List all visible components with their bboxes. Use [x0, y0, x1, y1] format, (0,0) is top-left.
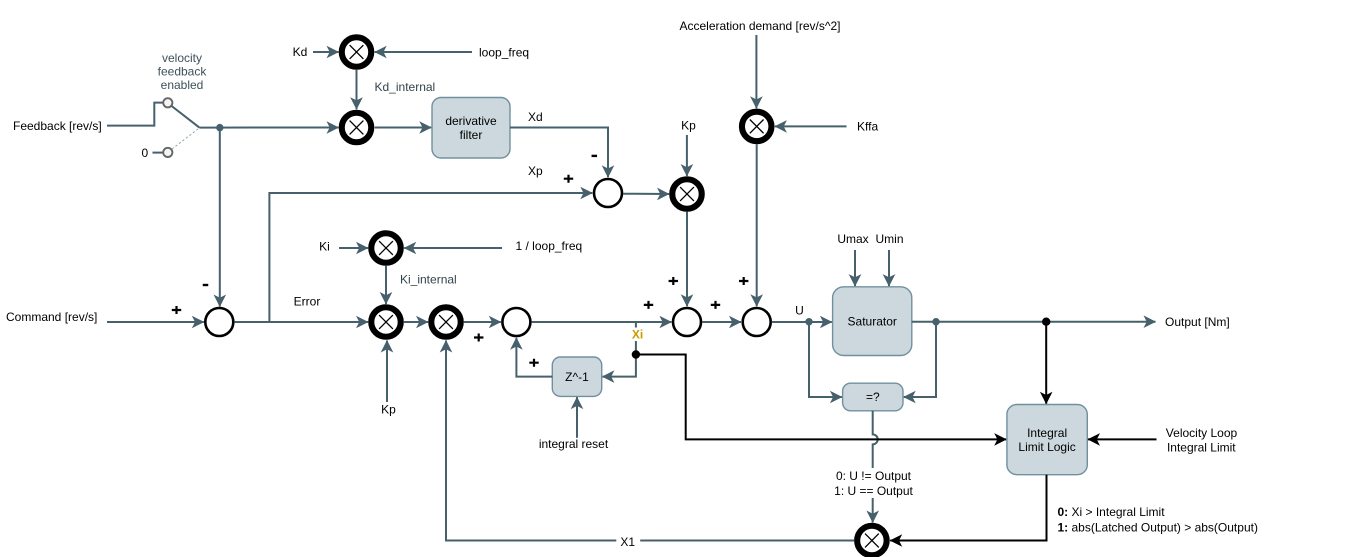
wire (black) output down to Integral Limit Logic — [1045, 322, 1047, 404]
svg-text:1: abs(Latched Output) > abs(O: 1: abs(Latched Output) > abs(Output) — [1058, 521, 1258, 535]
switch top contact circle — [163, 98, 172, 107]
sign plus at S1 left input — [564, 175, 573, 183]
multiplier ME2 (x X1 gate) — [431, 307, 461, 337]
sign plus at S0 left input — [172, 306, 181, 314]
svg-text:derivative: derivative — [445, 114, 497, 128]
junction dot U — [805, 318, 812, 325]
multiplier ME1 (Error x Ki_internal) — [371, 307, 401, 337]
wire Saturator output to Output [Nm] — [912, 321, 1156, 323]
svg-text:feedback: feedback — [158, 65, 208, 79]
svg-text:Kd_internal: Kd_internal — [375, 80, 436, 94]
svg-text:Integral Limit: Integral Limit — [1167, 441, 1236, 455]
wire loop_freq to multiplier M1 — [375, 51, 472, 53]
sign plus at SI bottom input — [529, 359, 538, 367]
multiplier MKI (Ki x 1/loop_freq) — [371, 233, 401, 263]
wire Kd to multiplier M1 — [313, 51, 339, 53]
wire integral reset up to Z^-1 — [576, 397, 578, 438]
wire Feedback input to switch top contact — [107, 103, 163, 126]
svg-text:Limit Logic: Limit Logic — [1018, 440, 1075, 454]
wire SI to sum S2 with Xi tap — [531, 321, 671, 323]
wire 0 to switch bottom contact — [153, 152, 163, 154]
svg-text:Umax: Umax — [837, 232, 868, 246]
wire S1 to multiplier M4 — [623, 193, 669, 195]
svg-text:Output [Nm]: Output [Nm] — [1165, 315, 1230, 329]
svg-text:Xd: Xd — [528, 110, 543, 124]
label background Xi — [628, 328, 647, 342]
junction dot Xi tap (black) — [632, 350, 640, 358]
multiplier M1 (Kd x loop_freq) — [342, 37, 372, 67]
svg-text:1 / loop_freq: 1 / loop_freq — [516, 239, 583, 253]
svg-text:Xp: Xp — [528, 164, 543, 178]
multiplier M3 (accel x Kffa) — [742, 112, 772, 141]
wire saturator output down to comparator — [904, 322, 936, 397]
switch bottom contact circle — [163, 148, 172, 157]
wire Ki to multiplier MKI — [339, 247, 368, 249]
label background X1 — [616, 534, 640, 549]
svg-text:integral reset: integral reset — [539, 437, 609, 451]
svg-text:Feedback [rev/s]: Feedback [rev/s] — [13, 119, 102, 133]
svg-text:0: U != Output: 0: U != Output — [836, 469, 912, 483]
wire Xi tap down to Z^-1 input — [602, 322, 636, 377]
wire Z^-1 output to SI bottom input — [516, 338, 552, 377]
svg-text:X1: X1 — [620, 535, 635, 549]
sign minus at S0 top input — [203, 284, 209, 286]
wire S3 to Saturator — [772, 321, 832, 323]
junction dot output branch (black) — [1042, 318, 1050, 326]
svg-text:Integral: Integral — [1027, 426, 1067, 440]
wire M1 to multiplier M2 — [356, 70, 358, 109]
svg-text:Umin: Umin — [875, 232, 903, 246]
svg-text:Xi: Xi — [632, 327, 643, 341]
sign plus at S3 top input — [739, 277, 748, 285]
summing junction S1 (Xp - Xd) — [594, 179, 622, 207]
svg-text:1: U == Output: 1: U == Output — [834, 484, 913, 498]
svg-text:=?: =? — [866, 390, 880, 404]
multiplier M2 (feedback x Kd_internal) — [342, 113, 372, 143]
sign minus at S1 top input — [592, 155, 598, 157]
wire Kp up to multiplier ME1 — [386, 341, 388, 403]
svg-text:U: U — [795, 303, 804, 317]
wire U down to comparator — [809, 322, 842, 397]
box Z^-1 — [552, 357, 601, 396]
wire (black) Velocity Loop Integral Limit to box — [1088, 438, 1157, 440]
multiplier M6 (X1 gate) — [857, 526, 887, 556]
summing junction S3 — [743, 308, 771, 336]
wire Command to sum S0 — [107, 321, 204, 323]
wire ME2 to sum SI — [464, 321, 501, 323]
wire switch pivot to multiplier M2 — [199, 127, 338, 129]
wire M4 down to sum S2 — [686, 212, 688, 307]
svg-text:Saturator: Saturator — [848, 314, 897, 328]
svg-text:Kd: Kd — [293, 45, 308, 59]
box comparator =? — [843, 383, 903, 411]
summing junction SI (integrator) — [502, 308, 530, 336]
sign plus at S2 left input — [644, 301, 653, 309]
svg-text:Error: Error — [294, 295, 321, 309]
svg-text:0: 0 — [141, 146, 148, 160]
junction dot feedback branch — [216, 124, 223, 131]
wire 1/loop_freq to multiplier MKI — [404, 247, 502, 249]
wire M6 output to ME2 (X1 path) — [446, 341, 854, 541]
wire feedback branch down to sum S0 — [219, 128, 221, 307]
svg-text:Velocity Loop: Velocity Loop — [1166, 426, 1238, 440]
wire Kp to multiplier M4 — [686, 135, 688, 176]
sign plus at S3 left input — [711, 301, 720, 309]
svg-text:Z^-1: Z^-1 — [565, 370, 589, 384]
switch blade (closed, from top contact) — [172, 106, 200, 128]
wire comparator down to multiplier M6 with hop — [873, 411, 878, 523]
wire Umax to Saturator — [854, 250, 856, 286]
svg-text:Kffa: Kffa — [857, 120, 878, 134]
svg-text:Command [rev/s]: Command [rev/s] — [6, 310, 97, 324]
switch open position dashed — [172, 129, 198, 149]
wire (black) Integral Limit Logic to multiplier M6 — [890, 475, 1046, 541]
wire derivative filter to sum S1 (Xd path) — [510, 128, 608, 178]
svg-text:0: Xi > Integral Limit: 0: Xi > Integral Limit — [1058, 505, 1166, 519]
wire Acceleration demand to multiplier M3 — [755, 35, 757, 108]
summing junction S2 — [673, 308, 701, 336]
wire S0 to multiplier ME1 — [234, 321, 368, 323]
summing junction S0 — [205, 308, 233, 336]
svg-text:filter: filter — [460, 128, 483, 142]
svg-text:Ki_internal: Ki_internal — [400, 273, 457, 287]
wire M2 to derivative filter — [375, 127, 432, 129]
box derivative filter — [432, 98, 510, 159]
wire M3 down to sum S3 — [756, 144, 758, 306]
wire Kffa to multiplier M3 — [775, 125, 847, 127]
wire ME1 to multiplier ME2 — [404, 321, 428, 323]
wire (black) Xi to Integral Limit Logic — [636, 355, 1006, 440]
wire Error branch up and right to sum S1 (Xp path) — [269, 193, 592, 322]
svg-text:Kp: Kp — [381, 403, 396, 417]
svg-text:velocity: velocity — [162, 51, 202, 65]
box Integral Limit Logic — [1007, 405, 1087, 475]
wire S2 to sum S3 — [702, 321, 741, 323]
svg-text:Kp: Kp — [681, 119, 696, 133]
label background 0/1 U output — [831, 468, 916, 498]
sign plus at S2 top input — [669, 277, 678, 285]
box Saturator — [833, 287, 912, 356]
junction dot saturator output — [932, 318, 939, 325]
svg-text:loop_freq: loop_freq — [479, 45, 529, 59]
wire MKI down to multiplier ME1 — [385, 266, 387, 304]
sign plus at SI left input — [474, 334, 483, 342]
multiplier M4 ((Xp-Xd) x Kp) — [672, 179, 702, 209]
wire Umin to Saturator — [888, 250, 890, 286]
svg-text:Ki: Ki — [319, 240, 330, 254]
svg-text:Acceleration demand [rev/s^2]: Acceleration demand [rev/s^2] — [679, 19, 840, 33]
svg-text:enabled: enabled — [161, 78, 204, 92]
